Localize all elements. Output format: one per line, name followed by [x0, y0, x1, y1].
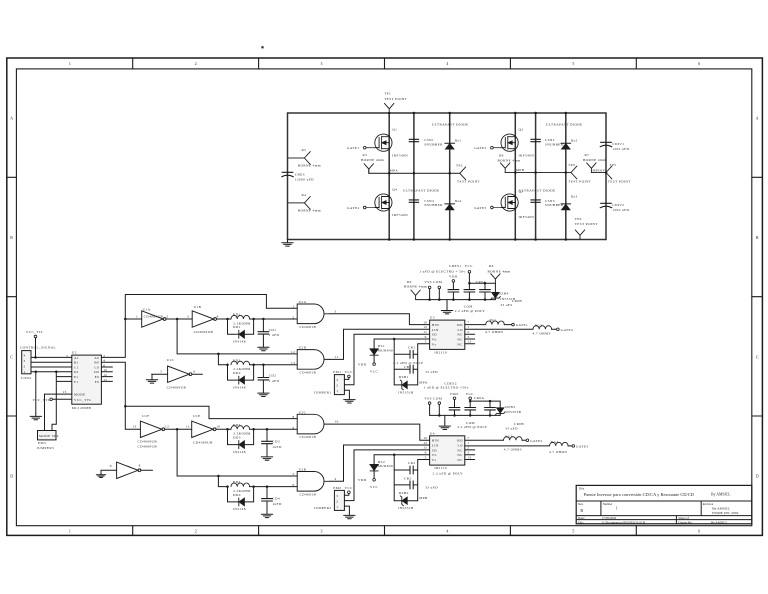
border row ticks [7, 177, 763, 416]
node junction bracket [55, 371, 58, 374]
diode DD2 1N4148 [226, 364, 255, 390]
svg-text:BORNE 4mm: BORNE 4mm [488, 270, 511, 274]
svg-text:5: 5 [572, 529, 574, 533]
capacitor CD1 [258, 318, 280, 344]
ground EM1 [344, 396, 355, 403]
diode Da4 ultrafast [445, 199, 462, 210]
diode DS1 MUR840 [370, 344, 393, 363]
gate U2C CD4081B [293, 410, 339, 439]
svg-text:GATE1: GATE1 [516, 323, 528, 327]
svg-text:TP6: TP6 [575, 217, 582, 221]
svg-text:Vs: Vs [432, 458, 437, 462]
svg-text:MODE SEL: MODE SEL [39, 434, 59, 438]
svg-text:1: 1 [24, 370, 26, 374]
svg-text:B: B [756, 236, 759, 240]
svg-text:12: 12 [165, 425, 169, 429]
svg-text:B: B [10, 236, 13, 240]
svg-text:VCC: VCC [370, 369, 379, 373]
inverter U1A [136, 308, 168, 328]
wire U3 NC stubs [465, 334, 475, 344]
node junction vcc bus U4 [469, 400, 491, 403]
capacitor CB2 [394, 476, 438, 489]
svg-text:3: 3 [467, 335, 469, 339]
wire bottom cluster vcc bus [470, 401, 500, 408]
svg-text:SD: SD [432, 448, 437, 452]
svg-text:BORNE 4mm: BORNE 4mm [361, 158, 384, 162]
svg-text:IR2110: IR2110 [434, 350, 447, 354]
wire MODE to jumper [45, 394, 72, 430]
svg-text:CD4081B: CD4081B [300, 325, 317, 329]
node GATE3 out [572, 445, 588, 449]
svg-text:GATE2: GATE2 [530, 439, 542, 443]
svg-text:1N5353B: 1N5353B [505, 410, 521, 414]
svg-text:1 uFD @ ELECTRO +50v: 1 uFD @ ELECTRO +50v [424, 386, 469, 390]
zener DZB2 1N5351B [394, 491, 418, 510]
svg-text:5: 5 [425, 340, 427, 344]
svg-text:NC: NC [457, 337, 463, 341]
ic U5 MC14508B [63, 351, 108, 410]
wire EM2 pin1 to ground [344, 506, 349, 512]
resistor RD1 [231, 313, 251, 326]
svg-text:TEST POINT: TEST POINT [457, 180, 481, 184]
inverter U1C unused [146, 358, 202, 390]
wire U4 Vs to MPB column [418, 460, 430, 501]
border row letters [10, 117, 759, 479]
capacitor CDIV1 [600, 142, 629, 151]
svg-text:DD2: DD2 [233, 371, 241, 375]
svg-text:6: 6 [698, 529, 700, 533]
svg-text:TEST POINT: TEST POINT [575, 222, 599, 226]
svg-text:R9: R9 [407, 280, 412, 284]
svg-text:RG4: RG4 [551, 440, 559, 444]
capacitor CR1 [393, 346, 423, 366]
wire RD3 right [250, 428, 298, 430]
node junction row1-row2 [176, 318, 179, 321]
svg-text:MPA: MPA [419, 380, 427, 384]
svg-text:1N4148: 1N4148 [232, 507, 245, 511]
svg-text:GATE3: GATE3 [474, 206, 486, 210]
ground CD3 [261, 454, 272, 461]
ground bottom cluster [439, 415, 450, 429]
svg-text:2: 2 [467, 330, 469, 334]
svg-text:F1: F1 [74, 380, 78, 384]
resistor R8 borne on MPB [498, 153, 521, 172]
svg-text:U1E: U1E [193, 414, 200, 418]
svg-text:TEST POINT: TEST POINT [384, 97, 408, 101]
svg-text:D1: D1 [74, 370, 79, 374]
svg-text:3: 3 [336, 378, 338, 382]
node VDD pin bottom cluster [450, 392, 459, 408]
svg-text:GATE3: GATE3 [576, 445, 588, 449]
svg-text:R8: R8 [499, 153, 504, 157]
svg-text:NC: NC [457, 453, 463, 457]
svg-text:CD2: CD2 [269, 374, 277, 378]
svg-text:3: 3 [467, 451, 469, 455]
svg-text:Size: Size [578, 502, 584, 506]
wire CSN2-CSN3 column [535, 113, 537, 240]
transistor Q2 [501, 128, 534, 158]
svg-text:1: 1 [293, 304, 295, 308]
svg-text:MPB: MPB [516, 168, 525, 172]
svg-text:VDD: VDD [358, 478, 367, 482]
node GATE4 out [557, 328, 573, 332]
wire U1E out to RD3 [216, 428, 231, 430]
node junction RD2 tap [217, 353, 220, 356]
svg-text:CB1: CB1 [404, 365, 411, 369]
svg-text:MODE: MODE [74, 393, 86, 397]
wire RD2 right [250, 364, 298, 366]
svg-text:3: 3 [335, 309, 337, 313]
svg-text:IR2110: IR2110 [434, 466, 447, 470]
svg-text:U2A: U2A [299, 300, 307, 304]
ground top cluster [441, 300, 452, 314]
diode DD4 1N4148 [226, 485, 255, 511]
svg-text:LO: LO [458, 328, 463, 332]
svg-text:BORNE 4mm: BORNE 4mm [498, 159, 521, 163]
svg-text:12000 uFD: 12000 uFD [295, 178, 314, 182]
jumper EM1 [314, 370, 353, 394]
svg-text:SNUBBER: SNUBBER [424, 143, 443, 147]
resistor RG1 [465, 318, 512, 334]
svg-text:Q1: Q1 [392, 128, 397, 132]
svg-text:33 uFD: 33 uFD [425, 486, 438, 490]
svg-text:U2D: U2D [299, 346, 307, 350]
svg-text:DD4: DD4 [233, 493, 241, 497]
wire U3 Vb [374, 339, 430, 349]
wire U2D out to U3 LIN [330, 329, 430, 359]
svg-text:2: 2 [195, 62, 197, 66]
wire U5 unused output stubs [101, 367, 112, 381]
wire top bus [288, 112, 607, 114]
svg-text:ESIME UPC 2002: ESIME UPC 2002 [712, 511, 738, 515]
svg-text:RG2: RG2 [535, 324, 543, 328]
wire bottom bus [288, 239, 607, 241]
svg-text:2.2 uFD @ POLY: 2.2 uFD @ POLY [457, 425, 487, 429]
svg-text:Vb: Vb [432, 453, 437, 457]
svg-text:CD4069UB: CD4069UB [167, 385, 187, 389]
svg-text:G:\Documentos\INVERSO3.SCH: G:\Documentos\INVERSO3.SCH [602, 520, 646, 524]
capacitor CDIV2 [600, 203, 629, 212]
test point TP1 [384, 92, 408, 113]
svg-text:4: 4 [217, 314, 219, 318]
svg-text:3: 3 [336, 494, 338, 498]
svg-text:CD4069UB: CD4069UB [144, 315, 164, 319]
node junction pin1 [35, 371, 38, 374]
svg-text:Puente Inversor para conversió: Puente Inversor para conversión CD/CA y … [584, 492, 694, 497]
capacitor CSN3 snubber [531, 199, 564, 207]
svg-text:13: 13 [63, 390, 67, 394]
svg-text:11: 11 [423, 446, 427, 450]
wire row2 from U1A out to U2D pin12 [177, 319, 297, 354]
ground CD4 [261, 511, 272, 518]
node junction RD4 tap [217, 475, 220, 478]
ground CD1 [258, 344, 269, 351]
wire RD2 tap [218, 354, 227, 365]
inverter U1F [132, 414, 169, 448]
svg-text:R3: R3 [363, 153, 368, 157]
svg-text:11: 11 [186, 425, 190, 429]
svg-text:RG3: RG3 [505, 435, 513, 439]
svg-text:12: 12 [423, 441, 427, 445]
svg-text:VCC_TTL: VCC_TTL [26, 330, 44, 334]
svg-text:8: 8 [139, 463, 141, 467]
svg-text:RD4: RD4 [233, 480, 241, 484]
ic U3 IR2110 [423, 316, 471, 355]
svg-text:E1: E1 [74, 375, 79, 379]
node junction VCC_TTL pin4 [34, 356, 37, 359]
svg-text:HIN: HIN [432, 439, 439, 443]
capacitor CD4 [262, 485, 282, 511]
svg-text:10: 10 [423, 436, 427, 440]
svg-text:HO: HO [457, 439, 463, 443]
node GATE2 out [526, 439, 542, 443]
test point TP9 [568, 163, 592, 184]
svg-text:VCC: VCC [345, 370, 354, 374]
svg-text:DZB2: DZB2 [399, 491, 409, 495]
svg-text:MPB: MPB [419, 496, 428, 500]
svg-text:CON4: CON4 [21, 376, 32, 380]
node junction U1A input [124, 318, 127, 321]
svg-text:10: 10 [216, 425, 220, 429]
svg-text:13: 13 [291, 361, 295, 365]
svg-text:ULTRAFAST DIODE: ULTRAFAST DIODE [432, 123, 469, 127]
svg-text:LO: LO [458, 444, 463, 448]
wire MPDIV stub [591, 172, 606, 174]
label CDES1 cluster [419, 264, 473, 273]
node junction dots MPB MPDIV [514, 171, 607, 174]
svg-text:CD4069UB: CD4069UB [138, 444, 158, 448]
svg-text:CDES1: CDES1 [449, 264, 461, 268]
node junction Vb U4 [393, 453, 396, 456]
svg-text:BORNE 4mm: BORNE 4mm [298, 209, 321, 213]
svg-text:HIN: HIN [432, 323, 439, 327]
svg-text:NC: NC [457, 458, 463, 462]
capacitor CRES [282, 172, 314, 181]
svg-text:CD4069UB: CD4069UB [194, 330, 214, 334]
ground CD2 [258, 390, 269, 397]
svg-text:SD: SD [432, 333, 437, 337]
svg-text:4.7 OHMS: 4.7 OHMS [549, 450, 567, 454]
svg-text:D: D [10, 475, 13, 479]
svg-text:3: 3 [321, 529, 323, 533]
svg-text:C0: C0 [94, 365, 99, 369]
svg-text:TP1: TP1 [384, 92, 391, 96]
wire U1F out to U1E in [165, 428, 192, 430]
svg-text:DZB4: DZB4 [499, 291, 509, 295]
svg-text:TP5: TP5 [610, 163, 617, 167]
svg-text:IRF540N: IRF540N [392, 213, 408, 217]
svg-text:1N4148: 1N4148 [232, 340, 245, 344]
svg-text:HO: HO [457, 323, 463, 327]
wire U5 A0 to row1 [101, 295, 297, 358]
ground EM2 [344, 512, 355, 519]
svg-text:10: 10 [335, 420, 339, 424]
svg-text:IRF540N: IRF540N [519, 215, 535, 219]
wire U3 bootstrap mid vertical [393, 339, 395, 385]
wire MPB-MPDIV node [505, 172, 571, 174]
svg-text:ULTRAFAST DIODE: ULTRAFAST DIODE [519, 188, 556, 192]
svg-text:Vs: Vs [432, 342, 437, 346]
svg-text:U4: U4 [430, 431, 435, 435]
svg-text:GATE4: GATE4 [347, 206, 359, 210]
wire left rail [287, 113, 289, 240]
capacitor COM poly bottom [457, 408, 487, 429]
wire MPA node [369, 172, 460, 174]
svg-text:GATE2: GATE2 [474, 146, 486, 150]
resistor R7 borne on MPDIV [583, 153, 606, 172]
wire right rail [605, 113, 607, 240]
svg-text:VSS COM: VSS COM [424, 280, 442, 284]
svg-text:TEST POINT: TEST POINT [568, 180, 592, 184]
svg-text:7: 7 [467, 320, 469, 324]
svg-text:1uFD: 1uFD [272, 445, 282, 449]
resistor RG3 [465, 435, 526, 452]
svg-text:F0: F0 [95, 380, 99, 384]
test point TP5 [606, 163, 631, 184]
node junction vcc bus [468, 282, 486, 285]
svg-text:11: 11 [423, 330, 427, 334]
svg-text:U1C: U1C [167, 358, 175, 362]
svg-text:B: B [580, 508, 583, 513]
svg-text:6: 6 [293, 483, 295, 487]
svg-text:CD1: CD1 [269, 328, 277, 332]
svg-text:6: 6 [425, 335, 427, 339]
wire CON4 to U5 pins [31, 357, 72, 371]
wire EM1 pin1 to ground [344, 390, 349, 396]
diode DD1 1N4148 [226, 318, 255, 344]
node GATE4 [347, 206, 375, 210]
svg-text:1N5351B: 1N5351B [398, 506, 414, 510]
resistor R5 borne [288, 148, 321, 168]
svg-text:5: 5 [572, 62, 574, 66]
svg-text:MPA: MPA [390, 169, 398, 173]
gate U2B CD4081B [293, 468, 337, 497]
node GATE3 [474, 206, 501, 210]
svg-text:2: 2 [293, 316, 295, 320]
svg-text:EM2: EM2 [333, 486, 341, 490]
node VCC pin top cluster [468, 271, 471, 290]
svg-text:CR2: CR2 [408, 461, 415, 465]
svg-text:DD3: DD3 [233, 436, 241, 440]
node junctions ground bus [428, 298, 486, 301]
node GATE1 [347, 146, 375, 150]
svg-text:3: 3 [24, 359, 26, 363]
wire U5 B0 to U1F input [125, 428, 140, 430]
wire U1B out to RD1 [217, 318, 232, 320]
svg-text:LIN: LIN [432, 444, 439, 448]
svg-text:RD3: RD3 [233, 423, 241, 427]
wire top cluster ground bus [416, 299, 496, 301]
svg-text:DD1: DD1 [233, 325, 241, 329]
svg-text:U2B: U2B [299, 468, 307, 472]
node VCC_TTL top [26, 330, 44, 357]
svg-text:2.2 uFD @ POLY: 2.2 uFD @ POLY [433, 472, 463, 476]
wire U4 SD to EM2 [344, 450, 429, 501]
svg-text:5: 5 [425, 455, 427, 459]
ground main [282, 240, 293, 247]
diode Da1 ultrafast [445, 138, 462, 149]
svg-text:TEST POINT: TEST POINT [608, 180, 632, 184]
svg-text:File:: File: [578, 520, 584, 524]
svg-text:VCC: VCC [345, 486, 354, 490]
svg-text:VCC: VCC [370, 485, 379, 489]
svg-text:3: 3 [66, 354, 68, 358]
wire U2C out to U4 HIN [330, 424, 430, 440]
node VDD pin U4 [358, 478, 379, 489]
svg-text:10: 10 [423, 320, 427, 324]
test point TP2 [456, 163, 481, 183]
capacitor CR0A bottom [474, 396, 495, 416]
svg-text:JUMPER2: JUMPER2 [314, 506, 332, 510]
svg-text:2: 2 [24, 365, 26, 369]
svg-text:ULTRAFAST DIODE: ULTRAFAST DIODE [403, 188, 440, 192]
svg-text:4: 4 [335, 477, 337, 481]
capacitor CD3 [262, 428, 282, 454]
svg-text:MPDIV: MPDIV [593, 169, 606, 173]
svg-text:A: A [756, 117, 759, 121]
svg-text:U1A: U1A [143, 308, 151, 312]
svg-text:By AMSICL: By AMSICL [711, 493, 731, 497]
capacitor CSN4 snubber [409, 199, 443, 207]
svg-text:13: 13 [467, 455, 471, 459]
svg-text:A1: A1 [74, 356, 79, 360]
svg-text:Da1: Da1 [455, 138, 462, 142]
svg-text:CD4: CD4 [272, 497, 280, 501]
stray dot [261, 46, 263, 48]
gate U2D CD4081B [291, 346, 339, 375]
svg-text:4: 4 [24, 354, 26, 358]
svg-text:33 uFd: 33 uFd [500, 303, 512, 307]
node GATE1 out [512, 323, 528, 327]
node junction Vb [393, 338, 396, 341]
node junctions ground bus U4 [438, 414, 491, 417]
svg-text:RD2: RD2 [233, 358, 241, 362]
svg-text:By AMSICL: By AMSICL [711, 520, 727, 524]
wire row4 from U1F out to U2B pin5 [177, 429, 297, 476]
svg-text:VDD: VDD [358, 362, 367, 366]
zener DZB1 1N5351B [394, 375, 418, 394]
svg-text:4.7 OHMS: 4.7 OHMS [504, 447, 522, 451]
svg-text:Q4: Q4 [392, 187, 397, 191]
svg-text:7: 7 [467, 436, 469, 440]
svg-text:CB2: CB2 [404, 476, 411, 480]
svg-text:2: 2 [336, 500, 338, 504]
wire RD4 right [250, 486, 298, 488]
wire U2B out to U4 LIN [330, 445, 430, 481]
wire U4 Vb [374, 455, 430, 465]
svg-text:BORNE 4mm: BORNE 4mm [298, 164, 321, 168]
node VDD pin U3 [358, 362, 379, 373]
node junction row3-row4 [176, 428, 179, 431]
border column numbers [69, 62, 700, 533]
node VSS COM pins top cluster [424, 280, 442, 300]
svg-text:12: 12 [423, 325, 427, 329]
zener DZB4 1N5351B [491, 283, 523, 307]
svg-text:VCC_TTL: VCC_TTL [33, 398, 51, 402]
svg-text:CR0A: CR0A [476, 280, 486, 284]
wire U1A out to U1B in [166, 318, 192, 320]
svg-text:2: 2 [166, 314, 168, 318]
svg-text:9: 9 [293, 426, 295, 430]
border column ticks [133, 58, 637, 535]
resistor R4 borne [288, 193, 321, 213]
node junction dots top bus [388, 112, 567, 115]
label CDES2 cluster [424, 381, 469, 389]
svg-text:1: 1 [69, 529, 71, 533]
svg-text:Number: Number [603, 502, 613, 506]
svg-text:1: 1 [136, 314, 138, 318]
svg-text:Vb: Vb [432, 337, 437, 341]
